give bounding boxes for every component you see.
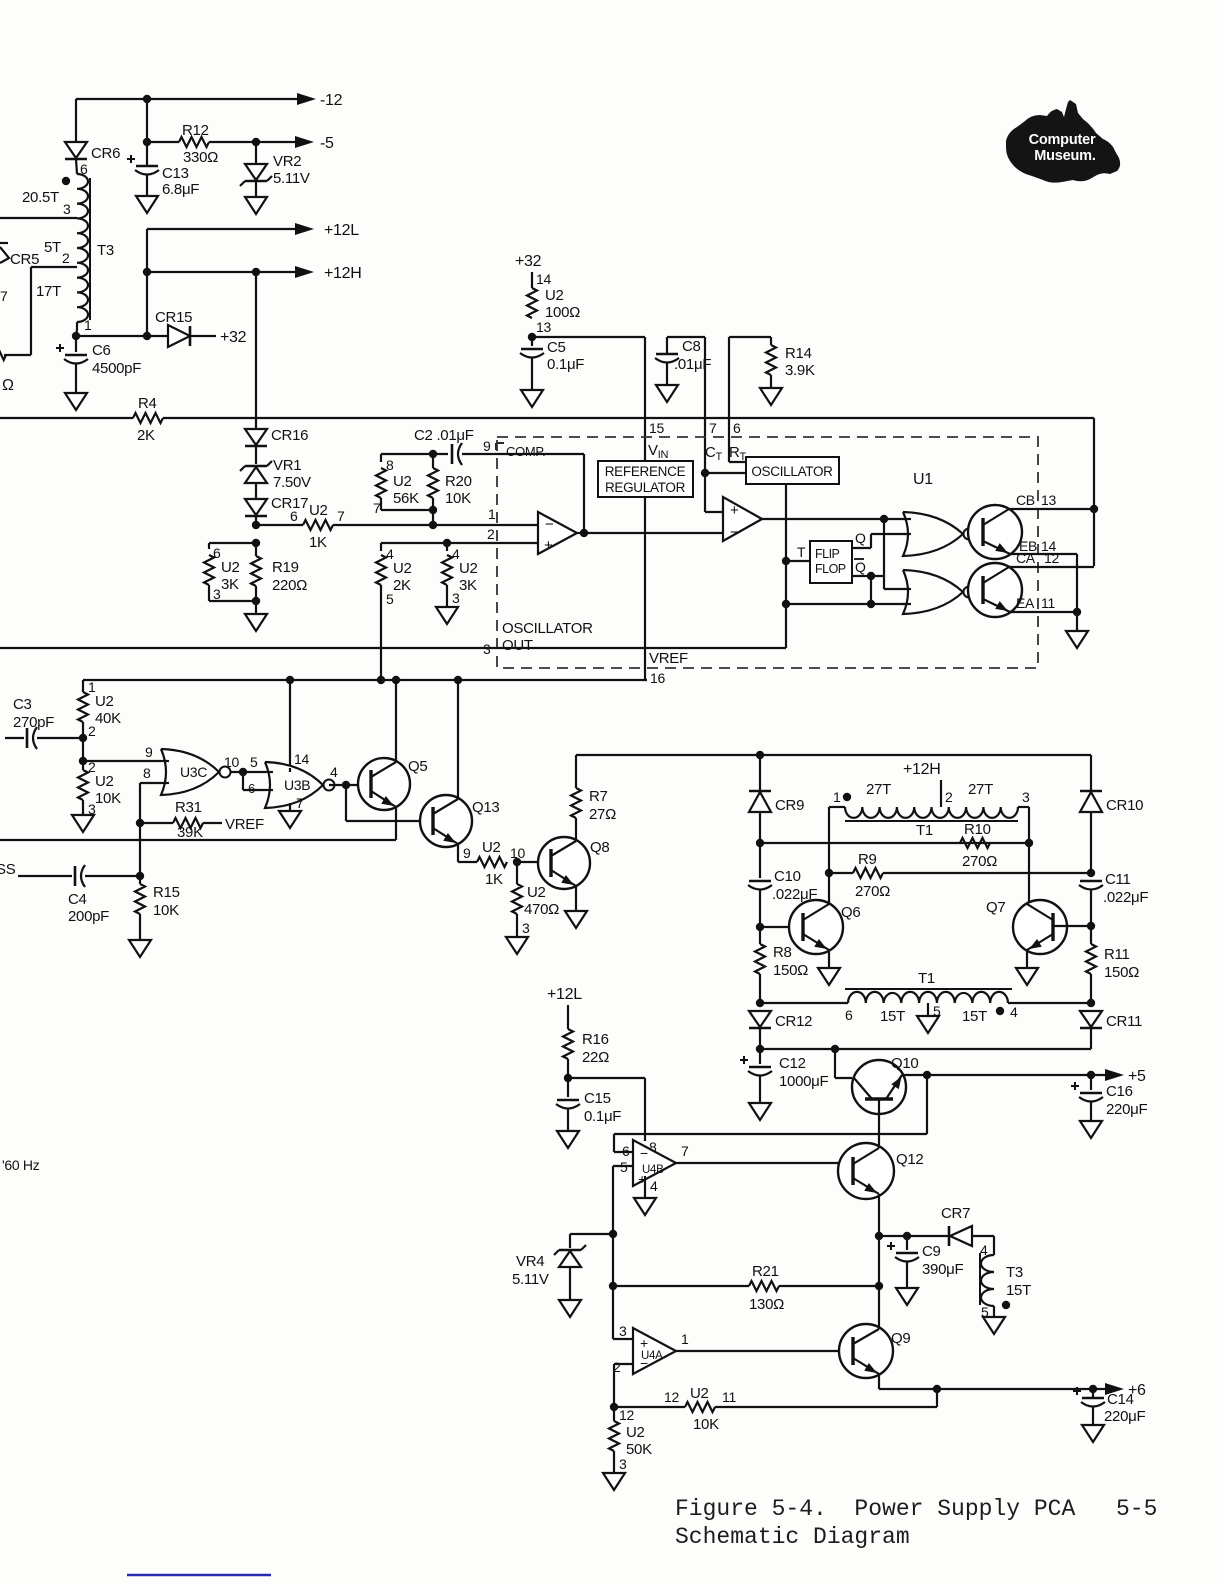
svg-text:5: 5	[250, 754, 258, 770]
svg-text:270Ω: 270Ω	[962, 853, 997, 870]
svg-text:130Ω: 130Ω	[749, 1296, 784, 1313]
transistor Q7 (mirrored)	[1013, 900, 1067, 954]
resistor R8 150ohm	[759, 927, 761, 944]
svg-text:.022μF: .022μF	[1103, 889, 1148, 906]
NOR gate U3C	[161, 749, 219, 795]
node CB on right vertical	[1090, 505, 1098, 513]
resistor R12 330ohm	[147, 141, 179, 143]
svg-text:5.11V: 5.11V	[512, 1271, 549, 1288]
wire Qbar down to gate line	[870, 576, 872, 604]
svg-text:220Ω: 220Ω	[272, 577, 307, 594]
svg-text:U2: U2	[309, 502, 328, 519]
wire +12H to T1 center tap	[940, 780, 942, 807]
node Qbar branch	[867, 572, 875, 580]
wire to VR4	[570, 1233, 613, 1235]
diode CR9	[759, 755, 761, 791]
wire Q13 collector to rail	[457, 680, 459, 799]
wire Q12 emitter to R21 node vertical	[878, 1236, 880, 1286]
ground below R14	[760, 388, 782, 405]
svg-text:U2: U2	[690, 1385, 709, 1402]
svg-text:5.11V: 5.11V	[273, 170, 310, 187]
diode CR15	[168, 325, 190, 347]
svg-text:7: 7	[0, 288, 8, 304]
wire U4A pin 3 input	[613, 1338, 633, 1340]
ground below C9	[896, 1288, 918, 1305]
svg-text:220μF: 220μF	[1104, 1408, 1145, 1425]
svg-text:8: 8	[143, 765, 151, 781]
node Q6 base junction	[756, 923, 764, 931]
wire -5 output	[256, 141, 300, 143]
svg-text:6.8μF: 6.8μF	[162, 181, 199, 198]
svg-text:R15: R15	[153, 884, 180, 901]
svg-text:VREF: VREF	[225, 816, 264, 833]
ground below C13	[136, 196, 158, 213]
resistor R14 3.9K	[770, 337, 772, 345]
node U2 10K left	[610, 1403, 618, 1411]
svg-text:3: 3	[1022, 789, 1030, 805]
resistor U2 100ohm pins 14-13	[531, 272, 533, 288]
ground below C5	[521, 390, 543, 407]
wire U3C pin8 vertical	[139, 783, 141, 876]
svg-text:R11: R11	[1104, 946, 1130, 963]
wire Q6 emitter to ground	[828, 950, 830, 968]
node VR2 top	[252, 138, 260, 146]
svg-text:U4A: U4A	[641, 1350, 663, 1362]
resistor R10 270ohm	[960, 838, 990, 848]
capacitor C5 0.1uF	[531, 337, 533, 346]
svg-text:−: −	[730, 524, 739, 541]
svg-text:VREF: VREF	[649, 650, 688, 667]
wire Q8 collector to R7	[575, 818, 577, 841]
wire Q5 collector to rail	[395, 680, 397, 762]
wire T1 sec right to R11 node	[1008, 1002, 1091, 1004]
wire U4B pin 5 input	[613, 1165, 633, 1167]
svg-text:C3: C3	[13, 696, 32, 713]
svg-text:Q10: Q10	[891, 1055, 918, 1072]
svg-text:330Ω: 330Ω	[183, 149, 218, 166]
wire U4B pin 6 input	[614, 1151, 633, 1153]
node pin13	[528, 333, 536, 341]
svg-text:R14: R14	[785, 345, 812, 362]
svg-text:5T: 5T	[44, 239, 61, 256]
svg-text:+: +	[640, 1335, 648, 1351]
node C16 top	[1087, 1071, 1095, 1079]
svg-text:U2: U2	[95, 693, 114, 710]
svg-text:CR9: CR9	[775, 797, 804, 814]
T3 pin 2 tap wire	[31, 266, 77, 268]
svg-text:3: 3	[619, 1456, 627, 1472]
op-amp PWM comparator	[723, 497, 762, 541]
wire comp line y454	[381, 453, 448, 455]
ground below U3B	[279, 811, 301, 828]
svg-text:Schematic Diagram: Schematic Diagram	[675, 1524, 910, 1550]
svg-text:EA: EA	[1016, 595, 1035, 611]
node C12 junction	[756, 1045, 764, 1053]
svg-text:1K: 1K	[309, 534, 327, 551]
svg-text:T1: T1	[918, 970, 935, 987]
capacitor C4 200pF	[74, 866, 77, 886]
svg-text:1: 1	[84, 317, 92, 333]
wire VREF pin16 vertical	[644, 497, 646, 680]
svg-text:5-5: 5-5	[1116, 1496, 1157, 1522]
op-amp comparator U1 error amp	[538, 512, 577, 554]
svg-text:C13: C13	[162, 165, 189, 182]
wire Q5 emitter down and left edge line	[395, 807, 397, 840]
svg-text:40K: 40K	[95, 710, 121, 727]
wire U2 2K pin5 down to rail	[380, 585, 382, 680]
svg-text:R10: R10	[964, 821, 991, 838]
svg-text:470Ω: 470Ω	[524, 901, 559, 918]
node feedback tap on +6	[933, 1385, 941, 1393]
svg-text:R21: R21	[752, 1263, 779, 1280]
wire CB pin 13	[1009, 508, 1094, 510]
svg-text:10: 10	[224, 754, 239, 770]
resistor R9 270ohm	[829, 872, 853, 874]
wire R16 to U4B pin 8	[568, 1077, 645, 1079]
node C11 top	[1087, 869, 1095, 877]
svg-text:3.9K: 3.9K	[785, 362, 815, 379]
node PWM to lower gate	[880, 515, 888, 523]
resistor U2 470ohm pin 3	[516, 862, 518, 884]
wire CT pin 7 vertical	[704, 337, 706, 473]
resistor U2 10K pins 12-11	[614, 1406, 685, 1408]
resistor U2 1K pins 6-7	[256, 524, 303, 526]
svg-text:390μF: 390μF	[922, 1261, 963, 1278]
wire U2 3K bottom bracket	[209, 600, 256, 602]
wire Q6 base	[760, 926, 790, 928]
NOR gate upper (drive B)	[903, 512, 963, 556]
svg-text:R31: R31	[175, 799, 202, 816]
svg-text:REFERENCE: REFERENCE	[605, 464, 686, 479]
svg-text:3: 3	[213, 586, 221, 602]
resistor U2 2K	[376, 555, 386, 585]
svg-text:Computer: Computer	[1029, 132, 1096, 148]
node R21 left	[609, 1282, 617, 1290]
svg-text:CR16: CR16	[271, 427, 308, 444]
wire pin13 to VIN pin 15	[532, 336, 645, 338]
svg-text:T3: T3	[97, 242, 114, 259]
svg-text:15T: 15T	[880, 1008, 905, 1025]
svg-text:14: 14	[536, 271, 551, 287]
T3 pin 3 tap wire	[0, 217, 77, 219]
node U3C pin9 junction	[79, 757, 87, 765]
wire Q output	[852, 547, 871, 549]
resistor R11 150ohm	[1090, 926, 1092, 944]
wire U3C output to U3B	[230, 771, 265, 773]
wire pin5 node down to pin3	[612, 1234, 614, 1339]
box REFERENCE REGULATOR	[598, 461, 693, 497]
wire pin2 down to feedback	[613, 1364, 615, 1407]
svg-text:OSCILLATOR: OSCILLATOR	[502, 620, 593, 637]
wire +5 sense down to U4B pin6 line	[926, 1075, 928, 1134]
svg-text:T1: T1	[916, 822, 933, 839]
transformer T3 phase dot	[62, 177, 70, 185]
ground below C14	[1082, 1425, 1104, 1442]
op-amp U4A	[633, 1328, 676, 1374]
svg-text:U2: U2	[393, 560, 412, 577]
svg-text:22Ω: 22Ω	[582, 1049, 609, 1066]
zener VR4 5.11V	[559, 1249, 581, 1252]
svg-text:7: 7	[709, 420, 717, 436]
svg-text:OSCILLATOR: OSCILLATOR	[751, 464, 833, 479]
blue pen mark bottom left	[127, 1574, 271, 1577]
node +5 sense	[923, 1071, 931, 1079]
node U2-2K pin5 on rail	[377, 676, 385, 684]
node Q5 collector on rail	[392, 676, 400, 684]
svg-text:150Ω: 150Ω	[773, 962, 808, 979]
svg-text:REGULATOR: REGULATOR	[605, 480, 686, 495]
svg-text:+32: +32	[220, 329, 247, 346]
resistor R19 220ohm	[255, 543, 257, 556]
box OSCILLATOR	[746, 457, 839, 484]
ground below Q8	[565, 911, 587, 928]
ground below U2 470	[506, 937, 528, 954]
T1 secondary phase dot	[996, 1007, 1004, 1015]
wire Q7 emitter to ground	[1026, 950, 1028, 968]
svg-text:11: 11	[722, 1389, 736, 1405]
wire Q12 emitter node to CR7	[879, 1235, 949, 1237]
svg-text:50K: 50K	[626, 1441, 652, 1458]
resistor R21 130ohm	[613, 1285, 749, 1287]
svg-text:Q6: Q6	[841, 904, 860, 921]
svg-text:VR2: VR2	[273, 153, 301, 170]
ground below U2 3K mid	[436, 607, 458, 624]
svg-text:U3C: U3C	[180, 764, 207, 780]
wire Q9 collector up to R21 node	[878, 1286, 880, 1329]
svg-text:-12: -12	[320, 92, 343, 109]
svg-text:SS: SS	[0, 861, 16, 878]
svg-text:20.5T: 20.5T	[22, 189, 59, 206]
svg-text:15: 15	[649, 420, 664, 436]
svg-text:C9: C9	[922, 1243, 941, 1260]
ground below R19	[245, 614, 267, 631]
svg-text:CA: CA	[1016, 550, 1036, 566]
svg-text:15T: 15T	[1006, 1282, 1031, 1299]
node divider top	[252, 539, 260, 547]
wire PWM jog to lower gate	[883, 519, 885, 589]
svg-text:6: 6	[845, 1007, 853, 1023]
svg-text:C6: C6	[92, 342, 111, 359]
svg-text:27T: 27T	[866, 781, 891, 798]
svg-text:6: 6	[622, 1143, 630, 1159]
wire pin6 corner up	[613, 1134, 615, 1152]
svg-text:R12: R12	[182, 122, 209, 139]
wire Q13 emitter	[457, 844, 459, 862]
svg-text:1: 1	[833, 789, 841, 805]
wire Q10 emitter to +5 rail	[902, 1074, 927, 1076]
wire U4B pin5 down to VR4 node	[612, 1166, 614, 1234]
svg-text:7.50V: 7.50V	[273, 474, 311, 491]
svg-text:-5: -5	[320, 135, 334, 152]
node comp1 output feedback	[580, 529, 588, 537]
diode CR11	[1080, 1011, 1102, 1027]
svg-text:4: 4	[650, 1178, 658, 1194]
ground below C6	[65, 393, 87, 410]
svg-text:+: +	[544, 537, 553, 554]
svg-text:C16: C16	[1106, 1083, 1133, 1100]
svg-text:CB: CB	[1016, 492, 1035, 508]
svg-text:11: 11	[1041, 595, 1055, 611]
svg-text:6: 6	[290, 508, 298, 524]
ground below C16	[1080, 1121, 1102, 1138]
svg-text:3: 3	[522, 920, 530, 936]
transformer T1 primary phase dot	[843, 793, 851, 801]
svg-text:U2: U2	[393, 473, 412, 490]
ground below C8	[656, 385, 678, 402]
ground below VR2	[245, 197, 267, 214]
capacitor C16 220uF	[1090, 1075, 1092, 1090]
svg-text:U4B: U4B	[642, 1164, 664, 1176]
wire RT pin 6 vertical	[728, 337, 730, 462]
svg-text:7: 7	[373, 500, 381, 516]
diode CR12	[749, 1011, 771, 1027]
wire EB pin 14	[1010, 553, 1077, 555]
svg-text:Figure 5-4. Power Supply PCA: Figure 5-4. Power Supply PCA	[675, 1496, 1075, 1522]
svg-text:Ω: Ω	[2, 377, 14, 394]
wire U3B pin 14 from rail	[289, 680, 291, 766]
svg-text:CR6: CR6	[91, 145, 120, 162]
svg-text:3: 3	[63, 201, 71, 217]
wire EA to ground	[1076, 612, 1078, 631]
svg-text:13: 13	[1041, 492, 1056, 508]
wire to U3C pin 9	[83, 760, 161, 762]
zener VR1 7.50V	[255, 446, 257, 464]
svg-text:Q12: Q12	[896, 1151, 923, 1168]
svg-text:CR15: CR15	[155, 309, 192, 326]
svg-text:270pF: 270pF	[13, 714, 54, 731]
transistor Q8	[538, 837, 590, 889]
capacitor C14 220uF	[1092, 1389, 1094, 1398]
svg-text:U2: U2	[545, 287, 564, 304]
svg-text:15T: 15T	[962, 1008, 987, 1025]
ground below C15	[557, 1131, 579, 1148]
wire U3B pin 7 to ground	[289, 803, 291, 811]
node C4/R15 junction	[136, 872, 144, 880]
capacitor C9 390uF	[906, 1236, 908, 1250]
svg-text:1: 1	[488, 506, 496, 522]
ground below VR4	[559, 1300, 581, 1317]
svg-text:U1: U1	[913, 471, 933, 488]
svg-text:CR12: CR12	[775, 1013, 812, 1030]
transistor output A	[975, 591, 983, 593]
wire comp1 output	[577, 532, 584, 534]
svg-text:3K: 3K	[221, 576, 239, 593]
svg-text:2: 2	[62, 250, 70, 266]
node U3C out jog	[239, 768, 247, 776]
resistor U2 40K pins 1-2	[82, 680, 84, 692]
transformer T1 primary winding 27T+27T	[845, 807, 1018, 818]
svg-text:2: 2	[945, 789, 953, 805]
node R10 right / T1 pin3	[1025, 839, 1033, 847]
node C14 top	[1089, 1385, 1097, 1393]
node Q13 collector on rail	[454, 676, 462, 684]
transistor Q9	[839, 1324, 893, 1378]
capacitor C13 6.8uF	[136, 165, 158, 168]
transistor Q6	[789, 900, 843, 954]
svg-text:C14: C14	[1107, 1391, 1134, 1408]
node EA ground junction	[1073, 608, 1081, 616]
wire U4A pin 2 input	[614, 1363, 633, 1365]
resistor R31 39K to VREF	[140, 822, 173, 824]
node C3 junction	[79, 734, 87, 742]
svg-text:+12L: +12L	[324, 222, 359, 239]
svg-text:10K: 10K	[153, 902, 179, 919]
capacitor C3 270pF	[5, 737, 24, 739]
wire T3 pin 5 to ground	[993, 1306, 995, 1317]
wire bottom rail y1049	[760, 1048, 1091, 1050]
svg-text:1000μF: 1000μF	[779, 1073, 829, 1090]
svg-text:FLOP: FLOP	[815, 562, 846, 576]
Computer Museum stamp logo	[1006, 100, 1120, 183]
IC U1 dashed outline	[497, 437, 1038, 668]
box FLIP FLOP	[810, 541, 852, 583]
ground below Q6	[818, 968, 840, 985]
node Q10 collector branch	[831, 1045, 839, 1053]
node R19 bottom	[252, 597, 260, 605]
node pin1 line	[429, 521, 437, 529]
wire comp1 out to PWM - input	[584, 532, 723, 534]
transistor Q13	[420, 795, 472, 847]
svg-text:1K: 1K	[485, 871, 503, 888]
wire +12H	[147, 271, 300, 273]
wire CR15 to +32	[190, 335, 216, 337]
svg-text:R19: R19	[272, 559, 299, 576]
svg-text:U2: U2	[482, 839, 501, 856]
wire U3B output to Q5 base	[329, 784, 371, 786]
capacitor C11 .022uF	[1080, 880, 1102, 883]
resistor U2 3K (mid)	[442, 555, 452, 585]
ground below T1 center tap	[917, 1016, 939, 1033]
svg-text:17T: 17T	[36, 283, 61, 300]
svg-text:U2: U2	[459, 560, 478, 577]
wire Q9 emitter to +6 rail	[878, 1374, 880, 1389]
resistor R15 10K	[139, 876, 141, 884]
resistor R4 2K on long feedback line	[0, 417, 133, 419]
node R21 right	[875, 1282, 883, 1290]
node C9 top	[903, 1232, 911, 1240]
wire U4B pin 4 ground	[644, 1176, 646, 1198]
svg-text:U3B: U3B	[284, 777, 310, 793]
svg-text:5: 5	[620, 1159, 628, 1175]
svg-text:+12H: +12H	[903, 761, 941, 778]
svg-text:R20: R20	[445, 473, 472, 490]
diode CR6	[75, 99, 77, 142]
wire oscillator out line	[0, 647, 786, 649]
zener VR2 5.11V	[255, 142, 257, 164]
diode CR7 (pointing left)	[950, 1226, 972, 1246]
node R9 junction on Q6 collector	[825, 869, 833, 877]
wire pin2 line to + input	[381, 542, 538, 544]
svg-text:2: 2	[88, 723, 96, 739]
T3 output phase dot	[1002, 1301, 1010, 1309]
svg-text:VR4: VR4	[516, 1253, 544, 1270]
svg-text:7: 7	[337, 508, 345, 524]
wire Q10 base down to Q12 collector	[878, 1099, 880, 1147]
wire Qbar output	[852, 575, 884, 577]
capacitor C12 1000uF	[759, 1049, 761, 1064]
svg-text:12: 12	[619, 1407, 634, 1423]
wire U4B output pin 7	[676, 1162, 852, 1164]
svg-text:5: 5	[386, 591, 394, 607]
ground below EA	[1066, 631, 1088, 648]
ground below R15	[129, 940, 151, 957]
svg-text:R4: R4	[138, 395, 157, 412]
node CR17 bottom	[252, 521, 260, 529]
wire R7 top to drive rail	[575, 755, 577, 788]
svg-text:T: T	[797, 544, 806, 560]
NOR gate lower (drive A)	[903, 570, 963, 614]
svg-text:Museum.: Museum.	[1034, 148, 1096, 164]
